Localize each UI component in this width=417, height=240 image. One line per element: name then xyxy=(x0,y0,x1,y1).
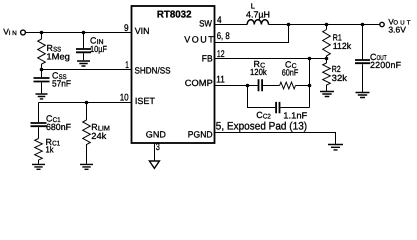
svg-text:GND: GND xyxy=(146,129,167,139)
svg-text:1: 1 xyxy=(125,60,129,71)
svg-text:57nF: 57nF xyxy=(52,79,72,89)
svg-text:120k: 120k xyxy=(250,67,267,77)
svg-text:9: 9 xyxy=(124,23,129,34)
svg-text:3: 3 xyxy=(156,142,160,153)
svg-text:ISET: ISET xyxy=(135,96,155,106)
svg-text:60nF: 60nF xyxy=(282,67,299,77)
svg-text:PGND: PGND xyxy=(188,129,213,139)
svg-text:2200nF: 2200nF xyxy=(370,60,402,70)
svg-text:COMP: COMP xyxy=(185,78,213,88)
svg-text:10µF: 10µF xyxy=(90,44,107,54)
svg-text:SW: SW xyxy=(199,19,212,29)
svg-text:680nF: 680nF xyxy=(46,122,72,132)
svg-text:5, Exposed Pad (13): 5, Exposed Pad (13) xyxy=(216,121,307,133)
svg-text:VIN: VIN xyxy=(135,26,150,36)
svg-text:32k: 32k xyxy=(332,73,348,83)
svg-text:1Meg: 1Meg xyxy=(46,51,70,61)
svg-text:10: 10 xyxy=(120,93,130,104)
svg-text:IN: IN xyxy=(9,30,17,37)
svg-text:4: 4 xyxy=(217,15,222,26)
svg-text:SHDN/SS: SHDN/SS xyxy=(135,66,171,76)
svg-text:1.1nF: 1.1nF xyxy=(283,111,308,121)
svg-text:24k: 24k xyxy=(91,131,107,141)
svg-text:112k: 112k xyxy=(333,41,352,51)
svg-text:11: 11 xyxy=(216,75,225,86)
svg-text:1k: 1k xyxy=(46,145,54,155)
svg-text:C2: C2 xyxy=(263,113,271,120)
svg-text:FB: FB xyxy=(202,53,213,63)
svg-text:4.7µH: 4.7µH xyxy=(246,9,270,19)
svg-text:RT8032: RT8032 xyxy=(157,10,192,21)
svg-text:3.6V: 3.6V xyxy=(388,25,406,35)
svg-text:12: 12 xyxy=(217,49,225,60)
svg-text:6, 8: 6, 8 xyxy=(217,31,230,42)
